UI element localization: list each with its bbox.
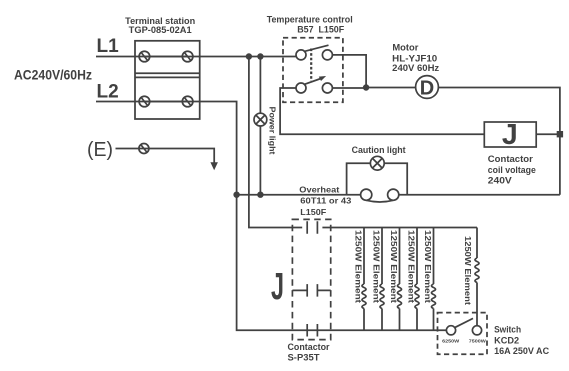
contact K1 <box>307 221 317 234</box>
svg-text:1250W Element: 1250W Element <box>423 230 433 303</box>
svg-text:KCD2: KCD2 <box>494 336 519 346</box>
terminal screw E <box>139 144 149 154</box>
contact K3 <box>307 324 317 337</box>
overheat switch terminal 1 <box>361 189 372 200</box>
temperature control label <box>267 15 353 35</box>
wire power light branch <box>259 57 261 195</box>
svg-text:D: D <box>420 77 434 99</box>
svg-text:1250W Element: 1250W Element <box>372 230 382 303</box>
switch label <box>494 325 549 357</box>
temperature control B57 box <box>283 38 343 102</box>
switch contact T1 <box>296 45 332 60</box>
terminal station TGP-085-02A1 <box>125 16 200 119</box>
svg-text:16A 250V AC: 16A 250V AC <box>494 346 549 356</box>
lamp power light <box>254 113 267 126</box>
svg-text:1250W Element: 1250W Element <box>407 230 417 303</box>
contactor coil label <box>488 154 536 185</box>
svg-text:HL-YJF10: HL-YJF10 <box>392 53 437 63</box>
resistor element 5 <box>432 228 436 331</box>
switch terminal 7500W <box>472 326 481 335</box>
resistor element 1 <box>362 228 366 331</box>
contact K2 <box>307 284 317 297</box>
wire L2 lead <box>96 101 200 103</box>
svg-text:60T11 or 43: 60T11 or 43 <box>300 196 351 206</box>
switch KCD2 box <box>438 313 488 355</box>
svg-text:Switch: Switch <box>494 325 521 335</box>
svg-text:Motor: Motor <box>392 42 419 52</box>
svg-text:L1: L1 <box>97 36 120 57</box>
wire L2 to bottom rail <box>200 102 447 331</box>
switch arm <box>454 318 474 328</box>
svg-text:6250W: 6250W <box>442 339 460 345</box>
switch terminal 6250W <box>446 326 455 335</box>
contactor coil U-J box <box>484 119 536 151</box>
contactor label <box>288 342 330 363</box>
overheat switch terminal 2 <box>388 189 399 200</box>
wire element top bus <box>322 227 477 229</box>
svg-text:J: J <box>271 266 284 308</box>
svg-text:J: J <box>502 119 518 151</box>
caution light loop <box>347 163 408 195</box>
svg-text:S-P35T: S-P35T <box>288 353 321 363</box>
node junction d <box>257 192 263 198</box>
svg-text:TGP-085-02A1: TGP-085-02A1 <box>129 25 192 35</box>
terminal screw 2 <box>182 51 193 62</box>
svg-text:Temperature control: Temperature control <box>267 15 353 25</box>
wire L1 to temperature control <box>200 56 297 58</box>
node junction c <box>233 192 239 198</box>
resistor element 2 <box>380 228 384 331</box>
node junction f <box>557 131 563 137</box>
wire temp top right <box>332 55 366 88</box>
wire coil to right rail <box>536 133 560 135</box>
svg-text:240V 60Hz: 240V 60Hz <box>392 63 440 73</box>
resistor element 3 <box>398 228 402 331</box>
wire overheat line <box>237 194 361 196</box>
svg-text:B57 L150F: B57 L150F <box>297 24 344 34</box>
svg-text:240V: 240V <box>488 175 512 185</box>
svg-text:L150F: L150F <box>300 207 326 217</box>
svg-text:(E): (E) <box>87 139 113 161</box>
switch contact T2 <box>296 76 332 93</box>
motor D <box>416 76 439 100</box>
svg-text:1250W Element: 1250W Element <box>389 230 399 303</box>
svg-text:7500W: 7500W <box>469 339 487 345</box>
svg-text:Contactor: Contactor <box>288 342 330 352</box>
wire L1 branch to contactor contact <box>249 57 302 228</box>
wire temp bottom left to coil line <box>280 88 484 134</box>
resistor element 6 <box>475 228 479 327</box>
node junction a <box>246 53 252 59</box>
wire E lead <box>116 149 215 163</box>
svg-text:Overheat: Overheat <box>299 185 339 195</box>
wire motor line <box>366 88 560 195</box>
node junction b <box>257 53 263 59</box>
svg-text:Caution light: Caution light <box>352 145 406 155</box>
resistor element 4 <box>415 228 419 331</box>
motor label <box>392 42 440 73</box>
svg-text:Contactor: Contactor <box>488 154 534 164</box>
contactor S-P35T box <box>292 219 330 339</box>
mechanical link <box>310 49 312 82</box>
wire L1 lead <box>96 56 200 58</box>
overheat label <box>299 185 351 217</box>
svg-text:1250W Element: 1250W Element <box>463 236 473 305</box>
lamp caution light <box>370 156 384 170</box>
svg-text:coil voltage: coil voltage <box>488 165 536 175</box>
terminal screw 4 <box>182 96 193 107</box>
svg-text:Power light: Power light <box>268 107 278 155</box>
terminal screw 3 <box>139 96 150 107</box>
terminal screw 1 <box>139 51 150 62</box>
svg-text:AC240V/60Hz: AC240V/60Hz <box>14 67 92 83</box>
overheat switch bridge <box>366 200 393 202</box>
ground <box>210 162 218 170</box>
contact K2 stubs <box>292 289 330 291</box>
svg-text:L2: L2 <box>97 82 119 103</box>
svg-text:1250W Element: 1250W Element <box>354 230 364 303</box>
switch position labels <box>442 339 486 345</box>
wire temp bottom right <box>332 87 366 89</box>
node junction e <box>363 84 369 90</box>
